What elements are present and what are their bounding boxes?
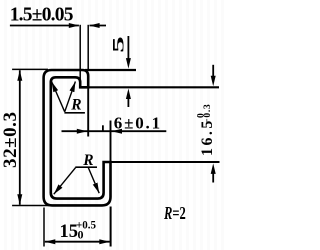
svg-text:0: 0 xyxy=(78,227,84,241)
svg-text:1.5±0.05: 1.5±0.05 xyxy=(10,5,74,26)
svg-text:16.5: 16.5 xyxy=(199,121,216,156)
svg-text:R: R xyxy=(70,96,81,113)
svg-text:R=2: R=2 xyxy=(163,203,185,223)
svg-text:32±0.3: 32±0.3 xyxy=(0,112,21,168)
svg-text:−0.3: −0.3 xyxy=(203,104,213,124)
svg-text:R: R xyxy=(82,152,93,169)
svg-text:6±0.1: 6±0.1 xyxy=(114,114,160,133)
svg-text:5: 5 xyxy=(110,36,127,53)
